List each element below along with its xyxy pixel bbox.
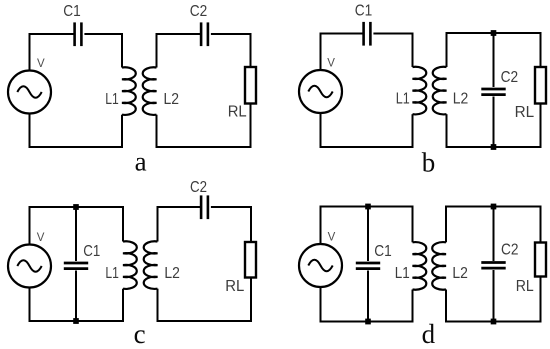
- inductor L2 (circuit a): [143, 67, 157, 115]
- resistor RL (circuit a): [245, 67, 256, 104]
- svg-text:L2: L2: [452, 265, 468, 282]
- svg-text:C1: C1: [374, 243, 392, 260]
- inductor L2 (circuit b): [433, 67, 447, 115]
- circuit a: right wire lower segment (from L1): [121, 115, 123, 148]
- circuit d: left wire lower segment: [320, 287, 322, 323]
- svg-text:V: V: [327, 58, 335, 70]
- circuit d: C1 branch lower wire: [367, 271, 369, 322]
- svg-text:C1: C1: [83, 243, 100, 260]
- resistor RL (circuit b): [535, 67, 546, 104]
- svg-text:RL: RL: [516, 278, 534, 295]
- svg-text:C2: C2: [501, 241, 519, 258]
- circuit b: wire top-left segment: [320, 33, 364, 35]
- capacitor C2 (circuit a, series): [201, 22, 208, 46]
- circuit d: C2 branch lower wire: [493, 270, 495, 322]
- inductor L1 (circuit d): [413, 242, 427, 290]
- svg-text:V: V: [37, 58, 45, 70]
- capacitor C2 (circuit b, parallel): [481, 89, 505, 95]
- svg-text:b: b: [422, 148, 436, 178]
- svg-text:d: d: [422, 319, 436, 349]
- circuit d: right loop left wire upper segment (to L2): [445, 206, 447, 243]
- capacitor C2 (circuit d, parallel): [481, 263, 505, 269]
- circuit a: bottom wire of left loop: [29, 146, 124, 148]
- circuit c: right loop right wire lower segment: [250, 277, 252, 322]
- node junction top of C2 branch (circuit d): [491, 204, 497, 210]
- inductor L1 (circuit c): [123, 241, 137, 289]
- svg-text:C2: C2: [190, 3, 208, 20]
- circuit a: wire top-right segment of left loop: [84, 33, 123, 35]
- voltage source V (circuit d): [299, 244, 342, 287]
- resistor RL (circuit c): [245, 242, 256, 278]
- circuit d: bottom wire of left loop: [320, 321, 414, 323]
- circuit b: right loop top wire: [446, 32, 542, 34]
- circuit a: wire top-left segment: [29, 33, 75, 35]
- circuit d: left loop right wire lower segment: [412, 290, 414, 323]
- svg-text:c: c: [134, 319, 146, 349]
- circuit c: bottom wire of left loop: [29, 320, 125, 322]
- resistor RL (circuit d): [535, 243, 546, 277]
- circuit b: left wire upper segment: [320, 33, 322, 71]
- circuit a: right loop right wire lower segment: [250, 103, 252, 148]
- circuit c: C1 branch upper wire: [75, 207, 77, 261]
- voltage source V (circuit c): [8, 245, 51, 288]
- circuit b: C2 branch upper wire: [493, 33, 495, 87]
- circuit b: C2 branch lower wire: [493, 97, 495, 148]
- circuit b: left loop right wire upper segment (to L1): [412, 33, 414, 68]
- svg-text:L1: L1: [396, 90, 410, 107]
- circuit b: right loop right wire upper segment: [540, 32, 542, 68]
- circuit b: left loop right wire lower segment: [412, 114, 414, 147]
- circuit a: right wire upper segment (to L1): [121, 33, 123, 68]
- circuit b: right loop right wire lower segment: [540, 103, 542, 148]
- voltage source V (circuit a): [8, 71, 51, 114]
- svg-text:RL: RL: [515, 104, 535, 121]
- circuit d: right loop right wire lower segment: [540, 276, 542, 323]
- capacitor C1 (circuit b, series): [364, 22, 371, 46]
- svg-text:RL: RL: [225, 278, 244, 295]
- circuit d: top wire of left loop: [320, 206, 414, 208]
- circuit d: right loop right wire upper segment: [540, 206, 542, 244]
- circuit b: right loop bottom wire: [446, 146, 542, 148]
- capacitor C1 (circuit c, parallel): [64, 263, 88, 269]
- circuit c: left loop right wire upper segment (to L1): [122, 206, 124, 242]
- node junction bottom of C2 branch (circuit b): [491, 144, 497, 150]
- circuit c: right loop top-left segment: [157, 206, 202, 208]
- node junction bottom of C2 branch (circuit d): [491, 319, 497, 325]
- circuit c: right loop right wire upper segment: [250, 206, 252, 243]
- inductor L2 (circuit c): [144, 241, 158, 289]
- circuit b: bottom wire of left loop: [320, 146, 414, 148]
- circuit c: right loop bottom wire: [157, 320, 253, 322]
- svg-text:L1: L1: [105, 91, 119, 108]
- node junction top of C1 branch (circuit d): [365, 204, 371, 210]
- voltage source V (circuit b): [299, 70, 342, 113]
- inductor L2 (circuit d): [432, 242, 446, 290]
- capacitor C1 (circuit a, series): [75, 22, 82, 46]
- circuit c: left wire lower segment: [29, 288, 31, 323]
- capacitor C2 (circuit c, series): [201, 195, 208, 219]
- svg-text:L1: L1: [105, 265, 119, 282]
- svg-text:RL: RL: [228, 104, 247, 121]
- circuit a: right loop right wire upper segment: [250, 33, 252, 68]
- circuit c: right loop top-right segment: [211, 206, 252, 208]
- circuit d: left loop right wire upper segment (to L1): [412, 206, 414, 243]
- inductor L1 (circuit a): [122, 67, 136, 115]
- svg-text:L1: L1: [395, 265, 410, 282]
- circuit d: C2 branch upper wire: [493, 207, 495, 262]
- circuit b: right loop left wire lower segment: [446, 114, 448, 148]
- svg-text:L2: L2: [453, 90, 469, 107]
- node junction top of C2 branch (circuit b): [491, 30, 497, 36]
- circuit d: left wire upper segment: [320, 206, 322, 244]
- circuit d: right loop left wire lower segment: [445, 290, 447, 323]
- circuit c: C1 branch lower wire: [75, 271, 77, 322]
- circuit c: top wire of left loop: [29, 206, 125, 208]
- capacitor C1 (circuit d, parallel): [356, 263, 380, 269]
- circuit b: wire top-right segment of left loop: [373, 33, 413, 35]
- circuit d: C1 branch upper wire: [367, 207, 369, 262]
- circuit d: right loop bottom wire: [445, 321, 542, 323]
- circuit b: right loop left wire upper segment (to L2): [446, 32, 448, 67]
- svg-text:L2: L2: [164, 265, 180, 282]
- circuit a: right loop left wire lower segment: [156, 115, 158, 148]
- svg-text:C1: C1: [63, 3, 81, 20]
- svg-text:C1: C1: [355, 3, 373, 20]
- circuit a: right loop top-left segment: [156, 33, 202, 35]
- svg-text:V: V: [328, 231, 336, 243]
- svg-text:L2: L2: [164, 91, 180, 108]
- node junction bottom of C1 branch (circuit d): [365, 319, 371, 325]
- circuit c: right loop left wire upper segment (to L2): [157, 206, 159, 242]
- circuit a: left wire lower segment: [29, 114, 31, 149]
- inductor L1 (circuit b): [413, 67, 427, 115]
- circuit a: left wire upper segment: [29, 33, 31, 71]
- circuit d: right loop top wire: [445, 206, 542, 208]
- circuit b: left wire lower segment: [320, 113, 322, 148]
- circuit c: left wire upper segment: [29, 206, 31, 244]
- circuit a: right loop left wire upper segment (to L2): [156, 33, 158, 68]
- svg-text:C2: C2: [501, 69, 519, 86]
- circuit c: left loop right wire lower segment: [122, 289, 124, 322]
- circuit c: right loop left wire lower segment: [157, 289, 159, 322]
- node junction bottom of C1 branch (circuit c): [73, 318, 79, 324]
- svg-text:C2: C2: [190, 179, 207, 196]
- circuit a: right loop bottom wire: [156, 146, 252, 148]
- svg-text:V: V: [37, 232, 45, 244]
- circuit a: right loop top-right segment: [211, 33, 252, 35]
- svg-text:a: a: [135, 147, 147, 177]
- node junction top of C1 branch (circuit c): [73, 204, 79, 210]
